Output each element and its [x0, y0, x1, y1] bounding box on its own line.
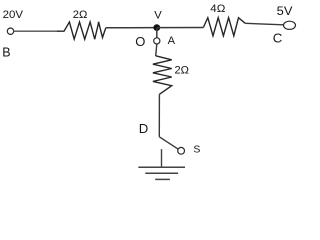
svg-text:D: D	[139, 121, 149, 136]
wire terminal O to R3	[156, 44, 157, 56]
ground bar 3	[155, 178, 170, 180]
resistor R3 2ohm vertical	[153, 56, 172, 95]
svg-text:2Ω: 2Ω	[175, 65, 190, 77]
ground bar 2	[145, 172, 178, 174]
svg-text:B: B	[2, 46, 10, 60]
terminal O/A open circle	[154, 38, 160, 44]
svg-text:C: C	[273, 30, 283, 45]
node V junction dot	[153, 24, 160, 31]
resistor R2 4ohm	[203, 18, 245, 36]
svg-text:4Ω: 4Ω	[210, 3, 225, 15]
ground bar 1	[138, 166, 185, 168]
svg-text:O: O	[135, 34, 145, 49]
resistor R1 2ohm	[57, 22, 106, 39]
svg-text:A: A	[168, 35, 176, 47]
wire node V down to terminal O	[156, 28, 158, 38]
wire R3 to switch	[158, 94, 160, 137]
svg-text:5V: 5V	[277, 6, 293, 18]
wire R1 to node V	[106, 27, 157, 29]
wire B to R1	[14, 30, 58, 32]
switch S blade	[159, 137, 178, 149]
terminal C ellipse	[284, 21, 296, 29]
switch S contact	[178, 147, 185, 154]
terminal B	[7, 28, 13, 34]
svg-text:S: S	[193, 143, 200, 155]
wire node V to R2	[157, 27, 204, 29]
svg-text:20V: 20V	[3, 9, 24, 21]
ground stem	[161, 149, 163, 167]
wire R2 to terminal C	[245, 23, 283, 25]
svg-text:2Ω: 2Ω	[73, 9, 88, 21]
svg-text:V: V	[154, 9, 162, 21]
